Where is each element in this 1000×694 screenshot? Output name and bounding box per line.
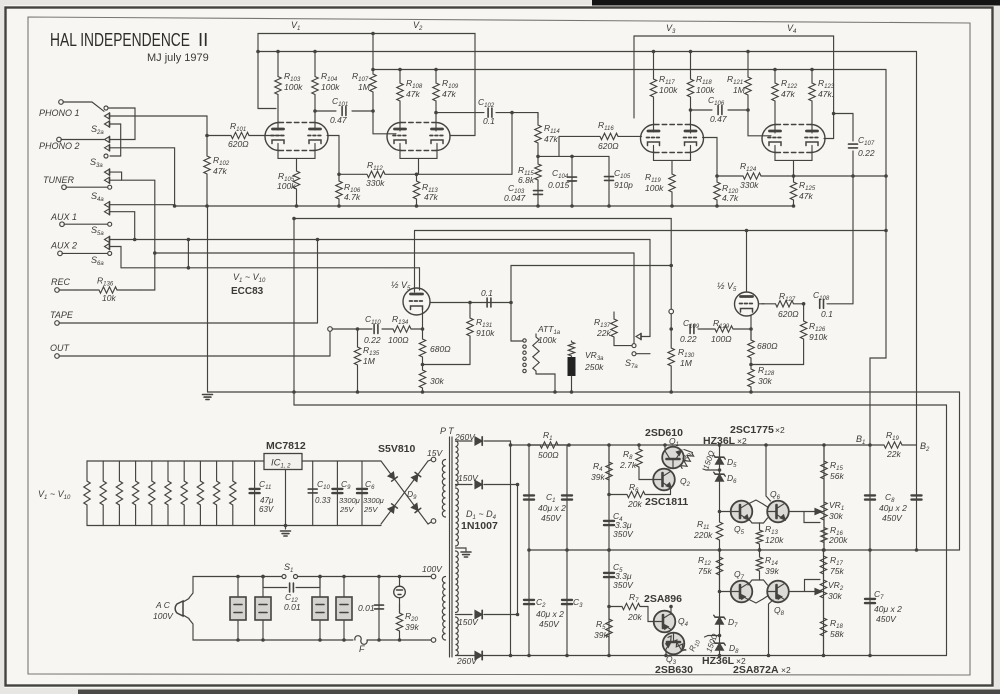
wire ground link bus	[294, 218, 671, 220]
junction R8 top	[637, 443, 641, 447]
wire S5a chain to S6a	[110, 212, 135, 240]
wire V3 V4 heater box	[634, 36, 834, 118]
junction R20 bottom	[398, 638, 402, 642]
resistor 30k left	[419, 365, 425, 393]
winding secondary 260-150 top	[456, 441, 459, 486]
svg-text:47k: 47k	[799, 191, 813, 201]
junction V2 grid	[371, 109, 375, 113]
svg-text:56k: 56k	[830, 471, 844, 481]
svg-text:47k: 47k	[442, 89, 456, 99]
diode D9b	[411, 503, 420, 512]
wire V5a cathode	[422, 310, 424, 330]
svg-text:30k: 30k	[758, 376, 772, 386]
junction C3 bottom	[565, 654, 569, 658]
wire R101 to V1 grid	[258, 135, 282, 137]
junction C107 feedback2	[851, 174, 855, 178]
svg-text:0.1: 0.1	[483, 116, 495, 126]
junction R10 zener	[718, 634, 722, 638]
diode D1	[475, 437, 482, 445]
resistor R125 47k	[790, 176, 796, 206]
terminal AUX 2	[58, 251, 63, 256]
svg-text:120k: 120k	[765, 535, 784, 545]
resistor VR3a body	[568, 341, 574, 357]
capacitor C101 0.47	[342, 107, 346, 116]
svg-text:0.33: 0.33	[315, 496, 331, 505]
junction Q6 collector	[764, 443, 768, 447]
resistor R6 20k	[609, 491, 671, 497]
svg-text:AUX 2: AUX 2	[50, 241, 77, 251]
svg-text:A C: A C	[155, 600, 171, 610]
junction C104	[570, 155, 574, 159]
junction Q8 minus rail	[767, 654, 771, 658]
svg-text:22k: 22k	[596, 328, 611, 338]
junction 680 30k	[421, 363, 425, 367]
resistor R123 47k	[809, 70, 815, 134]
wire S3a wiper to ground rail	[110, 148, 175, 206]
tube V4 ECC83	[762, 125, 825, 153]
svg-text:47k: 47k	[424, 192, 438, 202]
resistor heater V4	[132, 461, 138, 526]
svg-text:40μ x 2: 40μ x 2	[879, 503, 907, 513]
wire REC bus	[155, 252, 634, 254]
junction D8 bottom	[718, 654, 722, 658]
attenuator ATT1a taps	[523, 339, 526, 342]
resistor VR1 30k	[821, 483, 827, 523]
line filter module 1	[237, 577, 239, 598]
wire Q1 collector	[664, 445, 666, 450]
diode D9d	[411, 472, 420, 481]
switch S7a contact b	[632, 352, 636, 356]
svg-text:1M: 1M	[680, 358, 693, 368]
wire R131 bottom	[423, 364, 471, 366]
junction V5a cathode network	[421, 327, 425, 331]
svg-text:0.015: 0.015	[548, 180, 570, 190]
VR2 wiper arrow	[815, 589, 822, 595]
wire ground rail drop right	[959, 392, 961, 550]
resistor R134 100Ω	[382, 326, 423, 332]
wire rectifier bus b	[517, 485, 519, 615]
svg-text:2SC1775: 2SC1775	[730, 424, 774, 436]
junction C12 right	[318, 575, 322, 579]
wire 150V tap to D3	[456, 614, 473, 616]
resistor R116 620Ω	[559, 133, 642, 139]
wire Q2 emitter to R6	[670, 487, 672, 495]
svg-text:100k: 100k	[696, 85, 715, 95]
junction C12 left	[261, 575, 265, 579]
svg-text:2.7k: 2.7k	[619, 460, 637, 470]
wire bridge diagonal A	[381, 461, 428, 524]
resistor R102 47k	[204, 136, 210, 207]
wire D2 out	[484, 484, 518, 486]
wire S4a bracket	[110, 172, 122, 180]
svg-text:47k: 47k	[406, 89, 420, 99]
junction rail B2 left	[256, 50, 260, 54]
junction D5 top	[718, 443, 722, 447]
junction R102 ground	[205, 204, 209, 208]
svg-text:1M: 1M	[363, 356, 376, 366]
junction R107 rail	[371, 68, 375, 72]
resistor R9 150Ω	[680, 452, 695, 470]
junction filter 1 top	[236, 575, 240, 579]
wire VR3a bottom	[571, 376, 573, 392]
switch S1 contact b	[294, 575, 298, 579]
wire V1 grid to feedback	[327, 136, 339, 175]
wire V4 grid up	[824, 114, 834, 139]
switch S4a wiper	[105, 177, 110, 183]
wire bridge diagonal B	[381, 461, 428, 524]
resistor R19 22k	[870, 442, 917, 448]
wire B2 riser	[916, 52, 918, 446]
junction filter 3 top	[318, 575, 322, 579]
svg-text:450V: 450V	[539, 619, 560, 629]
svg-text:0.22: 0.22	[364, 335, 381, 345]
diode D3	[475, 610, 482, 618]
switch S4a contact b	[108, 185, 112, 189]
resistor R10 150Ω	[666, 635, 687, 652]
svg-text:HZ36L: HZ36L	[702, 655, 735, 667]
resistor heater V5	[149, 461, 155, 526]
ground IC	[281, 531, 291, 536]
diode D2	[475, 480, 482, 488]
wire AUX1 input	[64, 223, 108, 225]
wire B2 plate supply rail	[258, 51, 917, 53]
svg-text:AUX 1: AUX 1	[50, 212, 77, 222]
svg-text:25V: 25V	[339, 505, 354, 514]
diode D9c	[388, 504, 397, 513]
wire C1 C2 column	[528, 445, 530, 656]
winding primary 15V	[442, 460, 445, 518]
junction R101 R102	[205, 134, 209, 138]
wire S4a wiper to R136	[110, 180, 155, 290]
wire V5b output	[759, 303, 765, 305]
wire plate to C101	[315, 110, 336, 112]
svg-text:47k: 47k	[544, 134, 558, 144]
junction aux bus riser	[187, 238, 191, 242]
tube V3 ECC83	[641, 125, 704, 153]
junction V4 grid node	[832, 112, 836, 116]
wire R7 to Q4 base	[648, 607, 653, 622]
resistor R118 100k	[687, 52, 693, 111]
junction R105 ground	[295, 204, 299, 208]
resistor R20 39k	[396, 604, 402, 640]
junction R106 ground	[337, 204, 341, 208]
zener diode D7 HZ36L	[714, 615, 726, 624]
svg-text:450V: 450V	[882, 513, 903, 523]
resistor R122 47k	[772, 70, 778, 134]
svg-text:3300μ: 3300μ	[363, 496, 384, 505]
wire to V2 grid	[373, 111, 396, 134]
resistor 680Ω right	[748, 331, 754, 365]
junction C1a mid	[527, 548, 531, 552]
wire arrester top	[399, 577, 401, 587]
dark scan band bottom	[78, 690, 1000, 694]
junction V5b plate supply	[745, 229, 749, 233]
junction R108 top	[398, 68, 402, 72]
svg-text:680Ω: 680Ω	[757, 341, 778, 351]
resistor R114 47k	[535, 113, 541, 157]
svg-text:39k: 39k	[594, 630, 608, 640]
junction filter 3 bottom	[318, 638, 322, 642]
capacitor C108 0.1	[820, 299, 824, 308]
svg-text:100k: 100k	[321, 82, 340, 92]
resistor R16 200k	[821, 523, 827, 550]
switch S3a wiper	[105, 145, 110, 151]
svg-text:350V: 350V	[613, 529, 634, 539]
junction V4 grid	[746, 108, 750, 112]
wire C5 R5 column	[608, 550, 610, 656]
switch S6a contact b	[108, 251, 112, 255]
junction ground link	[292, 217, 296, 221]
svg-text:100k: 100k	[659, 85, 678, 95]
wire C106 to R121	[728, 109, 748, 111]
electrolytic capacitor C6 3300u 25V	[357, 489, 367, 493]
svg-text:2SA872A: 2SA872A	[733, 664, 779, 676]
junction C102 node	[510, 111, 514, 115]
svg-text:450V: 450V	[876, 614, 897, 624]
resistor heater V1	[84, 461, 90, 526]
wire C107 top	[852, 114, 854, 142]
junction R122 top	[773, 68, 777, 72]
wire cap 0.01 branch	[378, 577, 380, 641]
svg-text:620Ω: 620Ω	[598, 141, 619, 151]
wire OUT riser	[329, 331, 331, 356]
resistor R121 1M	[745, 52, 751, 111]
wire zener column lower	[719, 550, 721, 656]
wire ground rail 405	[294, 404, 947, 406]
switch S5a wiper	[105, 209, 110, 215]
junction V5b cathode	[749, 327, 753, 331]
svg-text:620Ω: 620Ω	[228, 139, 249, 149]
svg-text:350V: 350V	[613, 580, 634, 590]
junction Q4 emitter	[669, 605, 673, 609]
junction C103 ground	[536, 204, 540, 208]
wire S5a to ground rail	[110, 204, 175, 206]
svg-text:P T: P T	[440, 426, 455, 436]
svg-text:0.47: 0.47	[330, 115, 347, 125]
svg-text:680Ω: 680Ω	[430, 344, 451, 354]
junction ATT ground	[553, 390, 557, 394]
svg-text:100V: 100V	[153, 611, 174, 621]
resistor R130 1M	[668, 329, 674, 392]
junction V5 output bus	[509, 301, 513, 305]
terminal PHONO 2	[57, 137, 62, 142]
wire center tap	[456, 548, 467, 551]
svg-text:75k: 75k	[830, 566, 844, 576]
wire R126 bottom	[751, 364, 804, 366]
attenuator ATT1a resistor	[533, 334, 539, 374]
transistor Q8 2SA872A	[767, 581, 789, 603]
svg-text:1N1007: 1N1007	[461, 520, 498, 532]
terminal primary top	[431, 574, 436, 579]
electrolytic capacitor C8b	[912, 495, 922, 499]
junction R126 top	[802, 302, 806, 306]
wire V5b plate	[746, 231, 748, 293]
wire feedback2 to C107 node	[788, 175, 886, 177]
wire V2 cathode bus	[400, 144, 437, 159]
svg-text:100Ω: 100Ω	[711, 334, 732, 344]
svg-text:0.01: 0.01	[358, 603, 375, 613]
switch S5a contact a	[105, 202, 110, 208]
junction filter 2 top	[261, 575, 265, 579]
wire jack to C110	[332, 328, 372, 330]
resistor R119 100k	[669, 160, 675, 206]
transistor Q3 2SB630	[663, 633, 685, 655]
svg-text:100V: 100V	[422, 564, 443, 574]
svg-text:×2: ×2	[775, 425, 785, 435]
wire B1 plate supply rail	[373, 69, 886, 71]
capacitor 0.1 coupling	[487, 298, 491, 307]
terminal TAPE	[55, 321, 60, 326]
wire V3 cathode bus	[654, 146, 691, 161]
svg-text:MC7812: MC7812	[266, 440, 306, 452]
resistor R106 4.7k	[336, 174, 342, 206]
junction 30k ground	[421, 390, 425, 394]
resistor R117 100k	[650, 52, 656, 133]
switch S7a contact a	[632, 344, 636, 348]
resistor R129 100Ω	[698, 326, 751, 332]
wire TAPE	[59, 322, 318, 324]
capacitor C12 0.01	[290, 583, 294, 592]
junction V5 output to S7a	[669, 264, 673, 268]
diode D4	[475, 651, 482, 659]
wire PHONO2 input	[61, 139, 104, 141]
junction R113 ground	[415, 204, 419, 208]
electrolytic capacitor C5 3.3u	[604, 573, 614, 577]
svg-text:MJ july 1979: MJ july 1979	[147, 52, 209, 64]
wire R8 to Q2 base	[639, 472, 653, 480]
wire C6 branch	[361, 461, 363, 526]
resistor R104 100k	[312, 52, 318, 112]
junction B1 mid	[868, 548, 872, 552]
tube V1 ECC83	[265, 123, 328, 151]
resistor R115 6.8k	[535, 156, 541, 206]
winding primary 100V	[442, 577, 445, 641]
svg-text:20k: 20k	[627, 499, 642, 509]
junction D3	[516, 613, 520, 617]
zener diode D5 HZ36L	[714, 455, 726, 464]
wire C12 right	[319, 577, 321, 588]
resistor R131 910k	[467, 303, 473, 365]
junction S3a ground	[173, 204, 177, 208]
junction R135 ground	[356, 390, 360, 394]
wire IC ground	[285, 470, 287, 530]
resistor R103 100k	[275, 52, 281, 131]
svg-text:0.1: 0.1	[821, 309, 833, 319]
junction TAPE riser	[316, 238, 320, 242]
resistor R8 2.7k	[636, 445, 642, 472]
wire C108 out	[827, 303, 853, 305]
resistor heater V3	[116, 461, 122, 526]
wire plate to C102	[436, 112, 484, 114]
resistor R101 620Ω	[207, 132, 258, 138]
junction R107 top	[371, 32, 375, 36]
wire V4 cathode bus	[775, 146, 812, 161]
wire V5b cathode	[750, 315, 752, 340]
resistor R137 22k	[611, 312, 617, 346]
junction cap 0.01 bottom	[377, 638, 381, 642]
junction minus rail	[509, 654, 513, 658]
wire S2a wiper to R101	[110, 116, 208, 136]
svg-text:F: F	[359, 644, 365, 654]
resistor R15 56k	[821, 445, 827, 483]
junction R119 ground	[670, 204, 674, 208]
wire Q6 base link	[760, 518, 768, 523]
wire AC top to transformer	[298, 576, 432, 578]
svg-text:40μ x 2: 40μ x 2	[536, 609, 564, 619]
svg-text:2SC1811: 2SC1811	[645, 496, 688, 508]
resistor R105 100k	[293, 158, 299, 206]
switch S3a contact b	[104, 154, 108, 158]
wire R137 to S7a	[614, 345, 632, 347]
wire C1b C3 column	[566, 445, 568, 656]
svg-text:250k: 250k	[584, 362, 604, 372]
svg-text:100k: 100k	[277, 181, 296, 191]
resistor 680Ω left	[419, 329, 425, 365]
svg-text:REC: REC	[51, 277, 71, 287]
electrolytic capacitor C9 3300u 25V	[332, 489, 342, 493]
wire zener column	[719, 445, 721, 512]
svg-text:39k: 39k	[405, 622, 419, 632]
terminal OUT	[55, 354, 60, 359]
resistor R4 39k	[606, 445, 612, 495]
wire heater stub right	[450, 135, 475, 137]
terminal primary bottom	[431, 638, 436, 643]
junction feedback2	[715, 174, 719, 178]
wire 150V tap to D2	[456, 484, 473, 486]
wire AC top to S1	[189, 577, 282, 599]
svg-text:910p: 910p	[614, 180, 633, 190]
svg-text:II: II	[198, 29, 208, 50]
svg-text:HAL INDEPENDENCE: HAL INDEPENDENCE	[50, 29, 190, 50]
switch S2a contact b	[105, 121, 110, 127]
wire feedback to C102 node	[417, 173, 513, 175]
tube V5a half ECC83	[403, 288, 430, 315]
junction C1b mid	[565, 548, 569, 552]
wire arrester to R20	[399, 598, 401, 613]
switch S2a contact a	[104, 106, 108, 110]
fuse F	[355, 636, 367, 645]
junction R4 top	[607, 443, 611, 447]
wire Q7 emitter	[748, 580, 760, 585]
junction D2	[516, 483, 520, 487]
wire Q1 emitter to R9	[684, 450, 693, 453]
switch S5a contact b	[108, 222, 112, 226]
capacitor C102 0.1	[488, 108, 492, 117]
svg-text:15V: 15V	[427, 448, 443, 458]
junction V4 cathode	[792, 174, 796, 178]
junction cap 0.01 top	[377, 575, 381, 579]
resistor R120 4.7k	[714, 176, 720, 206]
svg-text:PHONO 1: PHONO 1	[39, 108, 80, 118]
capacitor C106 0.47	[718, 106, 722, 115]
wire ground rail 392	[208, 391, 960, 393]
svg-text:910k: 910k	[809, 332, 828, 342]
svg-text:450V: 450V	[541, 513, 562, 523]
switch S3a contact a	[105, 137, 110, 143]
junction R16 mid rail	[822, 548, 826, 552]
wire V5a output	[430, 302, 511, 304]
junction ground rail	[292, 390, 296, 394]
junction R17 top	[822, 548, 826, 552]
wire B2 column	[916, 445, 918, 550]
resistor R13 120k	[756, 523, 762, 550]
wire R118 to plate	[690, 110, 692, 133]
wire C102 out	[496, 112, 538, 114]
junction C105 ground	[607, 204, 611, 208]
capacitor C104 0.015	[568, 177, 577, 181]
wire REC bus to S7a	[633, 253, 635, 344]
wire TAPE riser	[317, 240, 319, 324]
